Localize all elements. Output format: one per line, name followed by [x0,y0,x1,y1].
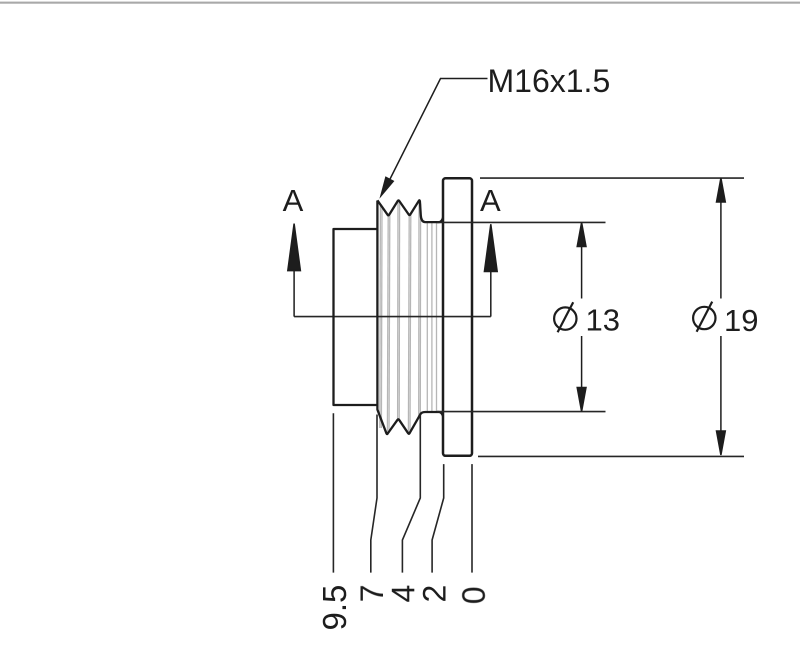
svg-text:2: 2 [417,585,453,603]
flange [443,178,472,456]
svg-text:9.5: 9.5 [316,585,353,631]
extension line dia13 bottom [437,411,606,413]
thread flank line (gray) group [380,202,437,434]
svg-text:13: 13 [586,303,620,338]
ordinate leader 0 [471,464,473,572]
svg-text:19: 19 [724,303,758,338]
leader M16x1.5 [384,79,488,193]
section arrow right [484,224,497,316]
dimension line dia13 [577,223,586,412]
svg-text:M16x1.5: M16x1.5 [488,63,611,99]
thread top profile [377,200,443,222]
extension line dia19 top [480,177,744,179]
ordinate leader 7 [371,415,377,573]
body outline (back cylinder) [334,229,378,405]
ordinate leader 9.5 [332,413,334,572]
top page border [0,2,800,4]
section line A-A [294,316,491,318]
thread start edge (left vertical) [376,201,378,410]
dia symbol 19 [693,302,715,332]
dia symbol 13 [554,302,576,332]
dimension line dia19 [717,178,726,455]
ordinate leader 2 [432,464,444,572]
thread bottom profile [377,409,443,434]
section arrow left [288,224,301,317]
extension line dia19 bottom [478,455,744,457]
svg-text:A: A [480,183,501,218]
extension line dia13 top [437,221,606,223]
leader arrowhead [379,176,394,199]
ordinate leader 4 [402,415,420,573]
svg-text:A: A [283,183,304,218]
svg-text:0: 0 [456,586,492,604]
